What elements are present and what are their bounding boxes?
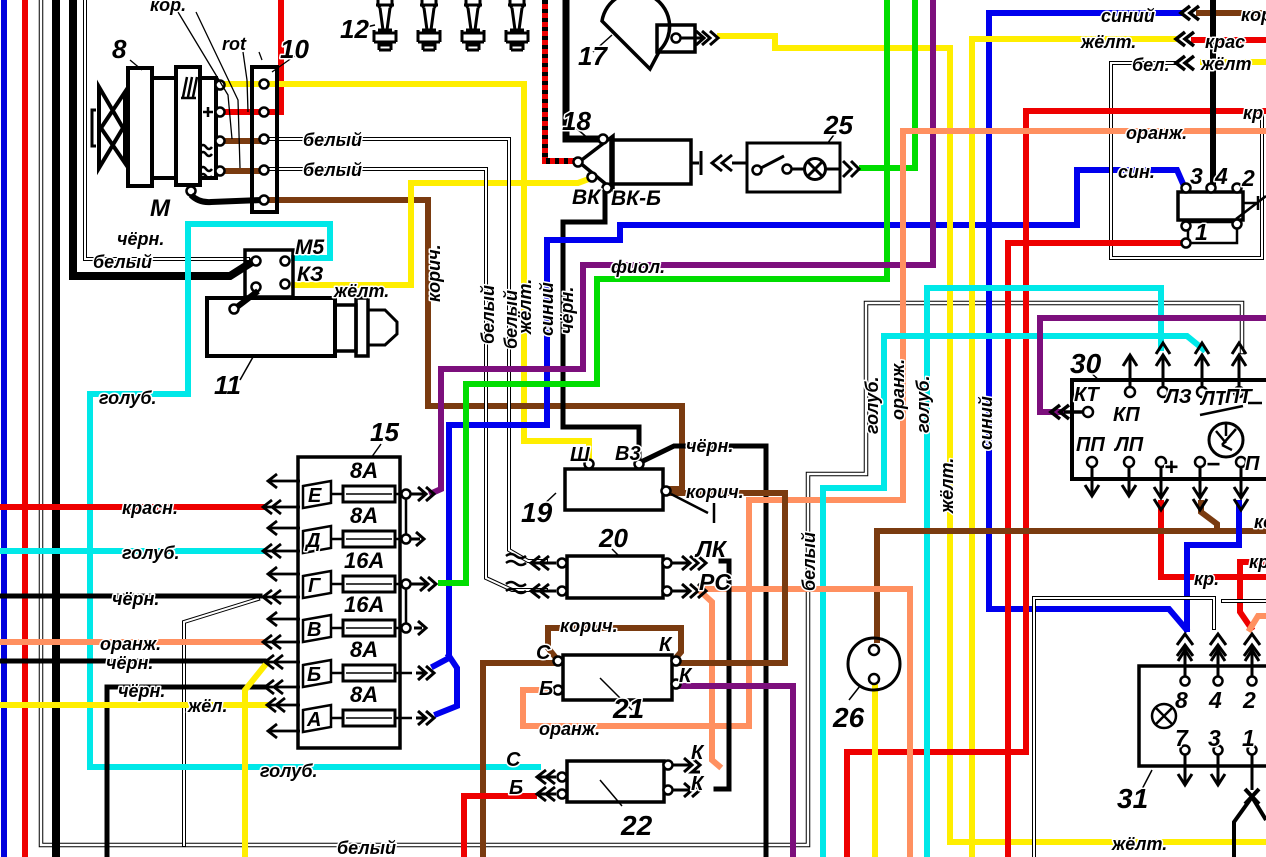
wire black from ВК-Б down to В3 of 19 xyxy=(563,191,639,461)
20 output arrows xyxy=(672,556,706,570)
svg-text:М5: М5 xyxy=(295,236,324,259)
wire yellow top right from edge xyxy=(1203,59,1266,65)
connector 10 xyxy=(252,67,277,212)
wire green from 25 output up to top edge xyxy=(862,0,915,168)
relay РС 19 xyxy=(565,469,663,510)
svg-text:чёрн.: чёрн. xyxy=(118,681,165,701)
fuse В element xyxy=(343,620,395,636)
TOP RIGHT relay xyxy=(1176,6,1266,248)
wire white to starter solenoid xyxy=(85,0,248,259)
svg-text:8: 8 xyxy=(112,34,127,64)
wire red from bottom edge to Б of 22 xyxy=(464,796,534,857)
svg-text:КЗ: КЗ xyxy=(297,263,324,286)
svg-text:голуб.: голуб. xyxy=(122,543,180,563)
wire red dotted to coil 18 left terminal xyxy=(545,0,575,161)
black wires below 31 xyxy=(1234,789,1266,857)
wire yellow from lamp 17 right across and down to жёлт. bottom xyxy=(720,36,1266,842)
svg-text:белый: белый xyxy=(799,532,819,591)
svg-text:16А: 16А xyxy=(344,592,384,617)
fuse А slot xyxy=(303,705,331,732)
generator 8 terminals xyxy=(187,81,225,196)
wire black М from generator to connector xyxy=(191,195,262,202)
svg-text:крас: крас xyxy=(1205,32,1245,52)
svg-text:20: 20 xyxy=(598,523,628,553)
svg-text:жёлт: жёлт xyxy=(1200,54,1251,74)
svg-text:В3: В3 xyxy=(615,443,641,465)
BOX 31 xyxy=(1139,634,1266,857)
svg-text:М: М xyxy=(150,195,171,222)
svg-text:голуб.: голуб. xyxy=(99,388,157,408)
svg-text:26: 26 xyxy=(832,702,865,733)
WIRES-MID xyxy=(464,493,910,857)
svg-text:синий: синий xyxy=(537,282,557,336)
svg-text:чёрн.: чёрн. xyxy=(112,589,159,609)
switch symbol in 30 xyxy=(1200,403,1262,415)
fuse box outline xyxy=(298,457,400,748)
connector arrows top right xyxy=(1176,6,1199,70)
svg-text:ПТ: ПТ xyxy=(1225,386,1253,408)
svg-text:С: С xyxy=(536,642,551,664)
svg-text:25: 25 xyxy=(823,110,853,140)
wire blue diagonal to chevron above 31-8 xyxy=(989,609,1186,629)
svg-text:15: 15 xyxy=(370,417,399,447)
fuse Е output arrow xyxy=(411,487,434,501)
svg-text:11: 11 xyxy=(214,370,241,400)
svg-text:корич.: корич. xyxy=(424,244,444,302)
fuse Б element xyxy=(343,665,395,681)
svg-text:Б: Б xyxy=(539,678,553,700)
svg-text:голуб.: голуб. xyxy=(260,761,318,781)
svg-text:чёрн.: чёрн. xyxy=(117,229,164,249)
svg-text:синий: синий xyxy=(1101,6,1155,26)
wire yellow from bottom edge diagonal to fuse Б input xyxy=(245,664,266,857)
generator 8 body xyxy=(128,68,152,186)
wire black to relay terminal 4 xyxy=(1210,0,1216,184)
svg-text:rot: rot xyxy=(222,34,247,54)
wire purple фиол. from top edge to fuse Е output xyxy=(432,0,933,493)
fuse output terminals xyxy=(402,490,411,633)
20 input arrows xyxy=(506,554,526,565)
fuse А output arrow xyxy=(416,711,434,725)
fuse Г output arrow xyxy=(411,577,436,591)
svg-text:син.: син. xyxy=(1118,162,1155,182)
wire red top right from edge xyxy=(1194,37,1266,43)
wire black from ЛК down to К of 22 xyxy=(716,561,729,789)
lamp 17 xyxy=(602,0,670,69)
svg-text:18: 18 xyxy=(562,106,591,136)
svg-text:синий: синий xyxy=(976,396,996,450)
svg-text:голуб.: голуб. xyxy=(862,377,882,435)
relay terminal numbers xyxy=(1190,163,1255,245)
svg-text:30: 30 xyxy=(1070,348,1102,379)
31 terminal numbers xyxy=(1175,687,1256,751)
31 top arrows xyxy=(1177,634,1193,676)
svg-text:10: 10 xyxy=(280,34,309,64)
svg-text:8А: 8А xyxy=(350,503,378,528)
fuse Б slot xyxy=(303,660,331,687)
wire white бел. frame around relay xyxy=(1111,63,1262,258)
svg-text:19: 19 xyxy=(521,497,553,528)
31 bottom arrows xyxy=(1178,755,1192,785)
wire brown from bottom edge to С of 21 xyxy=(483,663,555,857)
svg-text:−: − xyxy=(1206,451,1220,478)
svg-text:3: 3 xyxy=(1190,163,1203,189)
ignition coil 18 xyxy=(579,136,613,190)
svg-text:жёл.: жёл. xyxy=(187,696,227,716)
plus terminal xyxy=(1156,457,1166,467)
wire blue синий big run from relay 3 to fuse Б/А outputs xyxy=(434,170,1184,666)
wire brown корич. big horizontal to plug 26 xyxy=(877,531,1266,640)
wire cyan голуб. to ЛЗ chevron of 30 xyxy=(927,288,1161,857)
svg-text:корич.: корич. xyxy=(560,616,618,636)
31 bottom terminals xyxy=(1181,746,1257,755)
ЛЗ terminal xyxy=(1158,387,1168,397)
minus terminal xyxy=(1195,457,1205,467)
wire blue top синий to connector arrow xyxy=(989,13,1181,609)
svg-text:4: 4 xyxy=(1208,687,1222,713)
wire white branch to fuse Г input xyxy=(184,599,258,845)
MIDDLE BOXES xyxy=(506,460,900,807)
fuse Е slot xyxy=(303,481,331,508)
capacitor at 19 xyxy=(671,494,714,523)
fuse Г element xyxy=(343,576,395,592)
wire black to starter solenoid xyxy=(73,0,252,276)
BOX 30 xyxy=(1051,343,1266,510)
wire blue from 30 П pin to chevron above 31-8 xyxy=(1187,503,1239,629)
svg-text:+: + xyxy=(1164,454,1178,481)
wire orange from right edge to chevron above 31-2 xyxy=(1250,616,1266,629)
spark plugs 12 xyxy=(362,0,528,50)
svg-text:16А: 16А xyxy=(344,548,384,573)
svg-text:голуб.: голуб. xyxy=(913,376,933,434)
fuse amp ratings xyxy=(344,458,384,707)
fuse А element xyxy=(343,710,395,726)
svg-text:чёрн.: чёрн. xyxy=(686,436,733,456)
svg-text:4: 4 xyxy=(1214,163,1228,189)
wire yellow жёлт. to connector arrow and down xyxy=(972,39,1176,857)
wire black thick to coil 18 top terminal xyxy=(566,0,599,139)
generator 8 pulley xyxy=(92,87,125,168)
wire white белый pair from connector to box 20 input 2 xyxy=(265,169,546,590)
22 output arrows xyxy=(673,758,700,772)
svg-text:оранж.: оранж. xyxy=(100,634,161,654)
svg-text:чёрн.: чёрн. xyxy=(106,653,153,673)
starter 11 body xyxy=(207,298,335,356)
wire brown top right from edge xyxy=(1199,10,1266,16)
wire cyan голуб. to ЛТ chevron of 30 xyxy=(823,336,1203,857)
ПТ terminal xyxy=(1234,387,1244,397)
wire brown stub gen ~1 xyxy=(224,138,260,144)
svg-text:Г: Г xyxy=(308,575,322,597)
svg-text:Ш: Ш xyxy=(570,444,590,466)
svg-text:К: К xyxy=(691,742,705,764)
wire green from top edge to fuse Г output xyxy=(441,0,887,583)
fuse Д output arrow xyxy=(411,532,424,546)
wire purple from К of 21 to bottom edge xyxy=(675,686,793,857)
fuse В slot xyxy=(303,615,331,642)
wire black main battery vertical xyxy=(52,0,60,857)
svg-text:17: 17 xyxy=(578,41,608,71)
svg-text:21: 21 xyxy=(612,693,644,724)
wire white to chevron above 31-4 and bottom edge xyxy=(1034,598,1214,857)
svg-text:Е: Е xyxy=(308,485,322,507)
wire black чёрн. left feeder to fuse Г xyxy=(0,594,260,599)
svg-text:А: А xyxy=(306,709,321,731)
wire orange оранж. left feeder xyxy=(0,639,262,645)
relay 20 xyxy=(567,556,663,598)
svg-text:К: К xyxy=(659,634,673,656)
wire red красн. left feeder to fuse E xyxy=(0,504,262,510)
wire red from 30 plus pin to кр. right xyxy=(1161,503,1266,577)
fuse Д element xyxy=(343,531,395,547)
starter 11 lever xyxy=(237,291,258,307)
svg-text:фиол.: фиол. xyxy=(611,257,665,277)
wire yellow жёл. left feeder xyxy=(0,702,266,708)
relay box xyxy=(1178,192,1243,220)
svg-text:8А: 8А xyxy=(350,458,378,483)
svg-text:Б: Б xyxy=(307,664,321,686)
wire blue left vertical xyxy=(1,0,7,857)
svg-text:12: 12 xyxy=(340,14,369,44)
relay 21 xyxy=(563,655,672,700)
svg-text:белый: белый xyxy=(337,838,396,857)
fuse В output arrow xyxy=(414,621,426,635)
relay 22 xyxy=(567,761,664,802)
svg-text:8А: 8А xyxy=(350,637,378,662)
П terminal xyxy=(1236,457,1246,467)
22 input arrows xyxy=(537,770,556,784)
svg-text:КТ: КТ xyxy=(1074,384,1101,406)
svg-text:белый: белый xyxy=(478,285,498,344)
svg-text:чёрн.: чёрн. xyxy=(557,287,577,334)
wire red from generator + up to top edge xyxy=(224,0,281,112)
svg-text:ВК-Б: ВК-Б xyxy=(611,187,661,210)
svg-text:2: 2 xyxy=(1241,165,1255,191)
svg-text:кор: кор xyxy=(1241,5,1266,25)
svg-text:кр: кр xyxy=(1243,103,1263,123)
svg-text:оранж.: оранж. xyxy=(539,719,600,739)
svg-text:П: П xyxy=(1245,453,1260,475)
svg-text:1: 1 xyxy=(1242,725,1255,751)
wire brown корич. loop over box 21 xyxy=(548,628,681,659)
svg-text:жёлт.: жёлт. xyxy=(333,281,389,301)
wire red to relay terminal 1 xyxy=(1008,243,1180,857)
ЛП terminal xyxy=(1124,457,1134,467)
plug 26 xyxy=(848,638,900,690)
svg-text:корич.: корич. xyxy=(686,482,744,502)
svg-text:оранж.: оранж. xyxy=(888,359,908,420)
svg-text:22: 22 xyxy=(620,810,653,841)
starter solenoid 11 xyxy=(245,250,293,297)
svg-text:ЛЗ: ЛЗ xyxy=(1163,386,1192,408)
svg-text:ВК: ВК xyxy=(572,186,602,209)
fuse output links xyxy=(405,499,408,623)
svg-text:ПП: ПП xyxy=(1076,434,1105,456)
wire black чёрн. from В3 right then down to bottom xyxy=(643,446,766,857)
svg-text:красн.: красн. xyxy=(122,498,178,518)
WIRES-RIGHT xyxy=(523,0,1266,857)
svg-text:жёлт.: жёлт. xyxy=(1111,834,1167,854)
svg-text:белый: белый xyxy=(303,160,362,180)
wire blue branch to fuse А output xyxy=(437,656,457,714)
fuse input lines and arrows xyxy=(263,474,300,738)
wire cyan голуб. left feeder to fuse Д xyxy=(0,548,262,554)
wire brown from 19 terminal to К of 21 xyxy=(668,493,785,663)
wire orange оранж. long run to Б of 21 xyxy=(523,131,1266,726)
svg-text:Б: Б xyxy=(509,777,523,799)
svg-text:3: 3 xyxy=(1208,725,1221,751)
wire yellow from generator Ш via connector to Ш of 19 xyxy=(224,84,589,461)
wire red кр from right edge to chevron above 31-2 xyxy=(1240,562,1266,628)
svg-text:С: С xyxy=(506,749,521,771)
fuse Е element xyxy=(343,486,395,502)
svg-text:2: 2 xyxy=(1242,687,1256,713)
svg-text:К: К xyxy=(679,665,693,687)
svg-text:Д: Д xyxy=(304,530,320,552)
wire cyan голуб. from M5 terminal long loop to С of 22 xyxy=(90,224,538,767)
svg-text:1: 1 xyxy=(1195,219,1208,245)
svg-text:жёлт.: жёлт. xyxy=(515,279,535,335)
svg-text:В: В xyxy=(307,619,321,641)
svg-text:кр.: кр. xyxy=(1194,569,1219,589)
fuse letters xyxy=(304,485,322,731)
ЛТ terminal xyxy=(1197,387,1207,397)
leader lines кор rot xyxy=(130,12,296,168)
svg-text:белый: белый xyxy=(93,252,152,272)
КП terminal xyxy=(1125,387,1135,397)
svg-text:РС: РС xyxy=(699,569,731,595)
svg-text:8А: 8А xyxy=(350,682,378,707)
FUSE BOX 15 xyxy=(263,444,436,748)
svg-text:ЛК: ЛК xyxy=(694,536,728,562)
switch-lamp 25 xyxy=(747,143,840,192)
lamp symbol in 31 xyxy=(1152,704,1176,728)
wire yellow from plug 26 to bottom edge xyxy=(872,681,878,857)
svg-text:белый: белый xyxy=(303,130,362,150)
svg-text:К: К xyxy=(691,773,705,795)
svg-text:бел.: бел. xyxy=(1132,55,1170,75)
wire black чёрн. second left feeder xyxy=(0,659,264,664)
wire red кр from right edge down and to bottom left xyxy=(847,111,1266,857)
wire orange from РС to К of 22 xyxy=(700,591,719,766)
wire brown корич. from connector to box 19 terminal xyxy=(265,200,682,489)
generator Ш + ~ ~ symbols xyxy=(181,77,213,178)
svg-text:жёлт.: жёлт. xyxy=(1080,32,1136,52)
wire brown stub gen ~2 xyxy=(224,168,260,174)
15 leader xyxy=(371,444,381,458)
31 top terminals xyxy=(1181,677,1257,686)
svg-text:кр: кр xyxy=(1249,552,1266,572)
svg-text:оранж.: оранж. xyxy=(1126,123,1187,143)
wire brown from 30 minus pin jog xyxy=(1201,503,1217,531)
wire orange from РС right and down to bottom xyxy=(701,589,910,857)
svg-text:31: 31 xyxy=(1117,783,1148,814)
wire white белый pair from connector to box 20 input 1 xyxy=(265,139,546,561)
svg-text:КП: КП xyxy=(1113,404,1140,426)
box 31 outline xyxy=(1139,666,1266,766)
fuse Г slot xyxy=(303,571,331,598)
box 30 outline xyxy=(1072,380,1266,479)
wire white right edge stub xyxy=(1223,599,1266,603)
fuse Б output arrow xyxy=(416,666,434,680)
wire red left vertical xyxy=(22,0,28,857)
svg-text:8: 8 xyxy=(1175,687,1188,713)
svg-text:ЛП: ЛП xyxy=(1113,434,1144,456)
svg-text:ко: ко xyxy=(1254,512,1266,532)
fuse Д slot xyxy=(303,526,331,553)
wire yellow жёлт. from КЗ to ВК of coil 18 xyxy=(294,179,589,285)
svg-text:жёлт.: жёлт. xyxy=(937,458,957,514)
wire black чёрн. from bottom vertical to fuse xyxy=(107,687,264,857)
КТ terminal xyxy=(1083,407,1093,417)
transistor in 30 xyxy=(1209,423,1243,457)
ПП terminal xyxy=(1087,457,1097,467)
wire purple to КТ of 30 xyxy=(1040,318,1266,412)
svg-text:кор.: кор. xyxy=(150,0,186,15)
svg-text:7: 7 xyxy=(1175,725,1189,751)
